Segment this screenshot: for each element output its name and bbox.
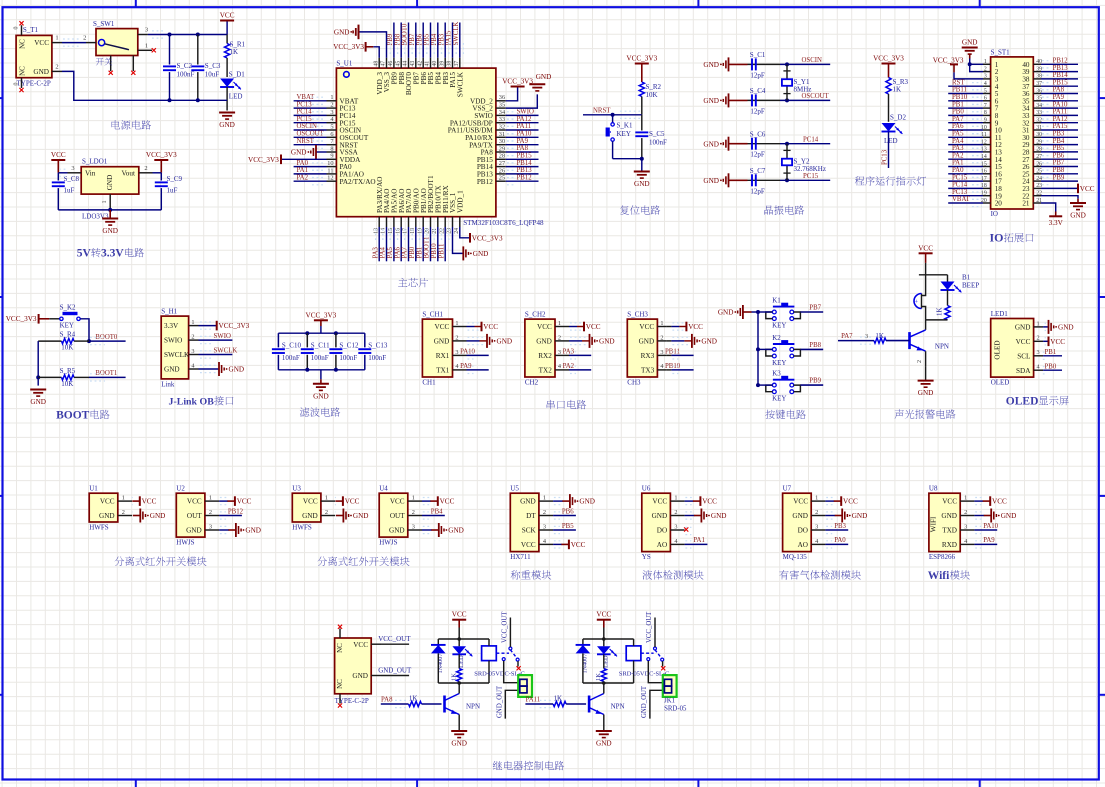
svg-text:SRD-05: SRD-05 — [664, 705, 687, 712]
svg-text:GND: GND — [596, 740, 612, 748]
wire filter bottom rail — [278, 369, 364, 371]
svg-text:44: 44 — [403, 61, 409, 67]
wire BOOT left trunk — [37, 341, 39, 386]
svg-text:S_R4: S_R4 — [60, 331, 76, 339]
svg-text:2: 2 — [660, 334, 663, 341]
svg-text:4: 4 — [984, 81, 987, 87]
resistor 1K relay — [595, 654, 606, 683]
svg-text:HWFS: HWFS — [292, 523, 312, 531]
no-ERC marker SW1 pin5 — [131, 71, 135, 75]
resistor 1K relay — [451, 654, 462, 683]
svg-text:100nF: 100nF — [311, 354, 329, 362]
svg-text:27: 27 — [499, 160, 505, 167]
svg-text:GND: GND — [703, 177, 719, 185]
svg-text:S_C10: S_C10 — [282, 342, 302, 350]
terminal connector relay — [518, 675, 532, 697]
capacitor S_C2 100nF — [163, 35, 195, 101]
svg-text:36: 36 — [499, 94, 505, 101]
svg-text:S_H1: S_H1 — [161, 308, 177, 316]
svg-text:VCC: VCC — [452, 611, 467, 619]
wire/net PA8 at U1 pin 29 — [506, 151, 539, 153]
wire/net PB5 at U5 pin3 — [553, 529, 576, 531]
svg-text:PA3: PA3 — [372, 246, 379, 258]
svg-text:PB12: PB12 — [517, 174, 533, 181]
svg-text:2: 2 — [144, 165, 147, 172]
svg-text:VCC: VCC — [51, 151, 66, 159]
svg-text:2: 2 — [917, 360, 923, 363]
svg-text:1uF: 1uF — [167, 187, 178, 195]
svg-text:8: 8 — [330, 145, 333, 152]
svg-text:DO: DO — [798, 527, 808, 535]
title relay control circuit — [493, 761, 502, 770]
svg-text:GND: GND — [291, 149, 307, 157]
svg-text:SWIO: SWIO — [164, 337, 182, 345]
crystal S_Y1 8MHz — [782, 62, 811, 102]
svg-text:VCC: VCC — [142, 498, 157, 506]
wire/net PA2 at ST1 pin 14 — [948, 158, 983, 160]
svg-text:PB7: PB7 — [1053, 160, 1065, 167]
svg-text:3: 3 — [815, 523, 818, 530]
wire/net PA5 at U1 pin 15 — [393, 227, 395, 261]
ground GND filter — [320, 370, 322, 380]
power port VCC_3V3 at ST1 pins 1/3 — [933, 57, 983, 79]
svg-text:PB14: PB14 — [1053, 72, 1069, 79]
svg-text:TX1: TX1 — [436, 367, 450, 375]
svg-text:PA3: PA3 — [563, 349, 575, 356]
svg-text:PB11: PB11 — [438, 244, 445, 259]
svg-text:LED: LED — [884, 137, 898, 145]
svg-text:S_C13: S_C13 — [368, 342, 388, 350]
LED S_D2 — [882, 114, 907, 146]
svg-text:PA7: PA7 — [841, 333, 853, 340]
svg-text:NRST: NRST — [297, 138, 315, 145]
svg-text:OUT: OUT — [187, 512, 202, 520]
wire/net VBAT at U1 pin 1 — [294, 100, 327, 102]
power port VCC at CH2 pin1 — [565, 326, 570, 328]
svg-text:S_LDO1: S_LDO1 — [82, 158, 108, 166]
svg-text:PA2/TX/AO: PA2/TX/AO — [340, 178, 376, 186]
svg-text:3: 3 — [412, 523, 415, 530]
svg-text:1: 1 — [325, 495, 328, 502]
title gas detect module — [779, 570, 788, 579]
mcu U1 STM32F103C8T6 body — [336, 60, 544, 227]
svg-text:VCC: VCC — [521, 541, 536, 549]
wire collector — [925, 320, 927, 330]
wire/net PB4 at U4 pin2 — [422, 515, 445, 517]
wire/net PA6 at U1 pin 16 — [400, 227, 402, 261]
capacitor S_C7 12pF / ground / net PC15 — [703, 167, 830, 195]
junction filter top C11 — [305, 331, 309, 335]
no-ERC marker T2 bottom — [338, 703, 342, 707]
svg-text:HWJS: HWJS — [379, 538, 397, 546]
junction keys trunk K2 — [756, 347, 760, 351]
connector T1 TYPE-C-2P — [14, 25, 63, 88]
wire/net PC14 at U1 pin 3 — [294, 114, 327, 116]
svg-text:S_C12: S_C12 — [339, 342, 359, 350]
svg-text:MQ-135: MQ-135 — [783, 553, 808, 561]
svg-text:RST: RST — [952, 79, 965, 86]
connector S_CH3 body — [627, 311, 667, 387]
wire/net PB6 at U1 pin 42 — [422, 23, 424, 58]
wire/net PA9 at U1 pin 30 — [506, 144, 539, 146]
svg-text:OLED: OLED — [994, 340, 1002, 359]
svg-text:1: 1 — [55, 35, 58, 42]
capacitor S_C13 100nF — [358, 333, 388, 370]
svg-text:6: 6 — [984, 96, 987, 102]
svg-text:VCC: VCC — [220, 12, 235, 20]
wire relay NO contact to connector — [504, 661, 519, 683]
svg-text:26: 26 — [499, 167, 505, 174]
svg-text:RX2: RX2 — [538, 352, 552, 360]
svg-text:1: 1 — [558, 320, 561, 327]
svg-text:OSCOUT: OSCOUT — [802, 93, 830, 100]
svg-text:GND: GND — [703, 140, 719, 148]
svg-text:BOOT1: BOOT1 — [95, 370, 117, 377]
pushbutton S_K1 KEY — [606, 115, 633, 159]
svg-text:3: 3 — [984, 74, 987, 80]
svg-text:48: 48 — [373, 61, 379, 67]
svg-text:8MHz: 8MHz — [794, 86, 812, 94]
wire/net PB5 at U1 pin 41 — [430, 23, 432, 58]
wire/net SWIO at U1 pin 34 — [506, 114, 539, 116]
svg-text:PB12: PB12 — [228, 508, 244, 515]
svg-text:S_C2: S_C2 — [177, 62, 193, 70]
display LED1 OLED body — [991, 310, 1043, 387]
module U2 body — [176, 485, 219, 547]
wire/net VCC_OUT relay contact — [509, 618, 511, 648]
svg-text:GND: GND — [599, 338, 615, 346]
svg-text:OLED: OLED — [991, 379, 1010, 387]
svg-text:PC14: PC14 — [297, 109, 313, 116]
svg-text:10uF: 10uF — [205, 71, 220, 79]
svg-text:100nF: 100nF — [339, 354, 357, 362]
power port VCC_3V3 at H1 pin1 — [199, 325, 217, 327]
svg-text:1: 1 — [145, 42, 148, 49]
svg-text:6: 6 — [330, 131, 333, 138]
svg-text:SWIO: SWIO — [517, 109, 534, 116]
wire/net PB8 at K2 — [800, 348, 823, 350]
svg-text:DO: DO — [657, 527, 667, 535]
svg-text:K3: K3 — [772, 370, 781, 378]
power port VCC at ST1 pin23 — [1041, 187, 1078, 189]
svg-text:VCC_3V3: VCC_3V3 — [626, 55, 657, 63]
ground GND alarm — [918, 380, 934, 382]
svg-text:12pF: 12pF — [750, 107, 765, 115]
ground GND at U1 pin2 — [133, 515, 141, 517]
svg-text:0: 0 — [14, 83, 20, 86]
junction keys trunk K3 — [756, 383, 760, 387]
svg-text:K1: K1 — [772, 296, 781, 304]
svg-text:1K: 1K — [595, 673, 602, 681]
wire/net PA1 at ST1 pin 15 — [948, 166, 983, 168]
svg-text:3: 3 — [543, 523, 546, 530]
svg-text:S_C1: S_C1 — [750, 51, 766, 59]
module U7 body — [783, 485, 826, 561]
svg-text:S_C9: S_C9 — [167, 175, 183, 183]
svg-text:VCC: VCC — [537, 323, 552, 331]
wire/net PB10 at ST1 pin 6 — [948, 100, 983, 102]
ground GND relay — [596, 730, 612, 732]
wire/net NRST reset — [583, 114, 642, 116]
svg-text:PB6: PB6 — [562, 508, 574, 515]
wire/net OSCOUT at U1 pin 6 — [294, 136, 327, 138]
svg-text:VCC: VCC — [440, 498, 455, 506]
svg-text:VCC: VCC — [303, 498, 318, 506]
power port VCC relay — [597, 619, 611, 621]
svg-text:PA7: PA7 — [402, 246, 409, 258]
capacitor S_C4 12pF / ground / net OSCOUT — [703, 87, 830, 115]
svg-text:PA2: PA2 — [563, 363, 575, 370]
svg-text:CH3: CH3 — [627, 378, 641, 386]
svg-text:VCC_3V3: VCC_3V3 — [146, 151, 177, 159]
svg-text:VCC_3V3: VCC_3V3 — [502, 78, 533, 86]
wire key to cap bottom — [613, 158, 642, 160]
svg-text:PB15: PB15 — [517, 153, 533, 160]
svg-text:VCC_3V3: VCC_3V3 — [219, 322, 250, 330]
svg-text:NPN: NPN — [935, 343, 949, 351]
svg-text:1K: 1K — [893, 86, 902, 94]
LED alarm — [941, 275, 962, 306]
wire/net PB15 at U1 pin 28 — [506, 158, 539, 160]
capacitor S_C6 12pF / ground / net PC14 — [703, 130, 830, 158]
wire/net PB1 at LED1 pin3 — [1043, 355, 1062, 357]
svg-text:1: 1 — [101, 200, 108, 203]
svg-text:PC15: PC15 — [297, 116, 313, 123]
svg-text:PA12: PA12 — [517, 116, 532, 123]
svg-text:42: 42 — [417, 61, 423, 67]
crystal S_Y2 32.768KHz — [782, 142, 826, 183]
svg-text:Vin: Vin — [85, 170, 96, 178]
title filter circuit — [300, 407, 309, 416]
svg-text:100nF: 100nF — [368, 354, 386, 362]
ground GND at U2 pin3 — [219, 529, 229, 531]
no-ERC marker SW1 pin1 — [152, 48, 156, 52]
ground GND power circuit — [219, 112, 235, 114]
title program run indicator — [855, 176, 865, 185]
svg-text:VCC: VCC — [942, 498, 957, 506]
svg-text:S_U1: S_U1 — [336, 60, 352, 68]
svg-text:GND: GND — [941, 512, 957, 520]
svg-text:U2: U2 — [176, 485, 185, 493]
svg-text:PA5: PA5 — [387, 246, 394, 258]
relay contact armature — [496, 652, 509, 654]
svg-text:GND: GND — [102, 227, 118, 235]
svg-text:GND: GND — [579, 498, 595, 506]
module U1 body — [89, 485, 132, 532]
svg-text:VCC: VCC — [586, 323, 601, 331]
svg-text:3: 3 — [191, 348, 194, 355]
wire/net PA12 at ST1 pin 32 — [1041, 122, 1078, 124]
module U3 body — [292, 485, 335, 532]
svg-text:1K: 1K — [554, 695, 563, 703]
wire/net PA2 at CH2 pin4 — [565, 369, 570, 371]
wire emitter to ground — [925, 351, 927, 367]
svg-text:VCC: VCC — [571, 541, 586, 549]
svg-text:PA10: PA10 — [1053, 101, 1068, 108]
svg-text:GND: GND — [1015, 324, 1031, 332]
svg-text:PA12: PA12 — [1053, 116, 1068, 123]
wire/net VBAT at ST1 pin 20 — [948, 202, 983, 204]
ground GND at U4 pin3 — [422, 529, 432, 531]
svg-text:1: 1 — [815, 495, 818, 502]
svg-text:9: 9 — [330, 153, 333, 160]
wire/net PA15 at ST1 pin 31 — [1041, 129, 1078, 131]
wire/net PB7 at K1 — [800, 311, 823, 313]
junction NRST/key — [611, 113, 615, 117]
svg-text:OSCIN: OSCIN — [802, 57, 822, 64]
capacitor S_C9 1uF — [155, 173, 183, 210]
svg-text:3: 3 — [674, 523, 677, 530]
junction C3 bottom — [196, 98, 200, 102]
svg-text:VDD_1: VDD_1 — [456, 190, 464, 213]
wire/net PA4 at U1 pin 14 — [386, 227, 388, 261]
wire/net SWCLK at H1 pin3 — [199, 354, 233, 356]
svg-text:VCC: VCC — [100, 498, 115, 506]
capacitor S_C12 100nF — [329, 333, 359, 370]
wire/net PA3 at U1 pin 13 — [378, 227, 380, 261]
svg-text:PB12: PB12 — [1053, 58, 1069, 65]
no-ERC marker relay NC contact — [517, 661, 519, 666]
capacitor S_C11 100nF — [301, 333, 330, 370]
title main chip — [398, 278, 407, 287]
power port VCC at CH3 pin1 — [667, 326, 672, 328]
svg-text:PA11: PA11 — [517, 123, 532, 130]
ground GND at U8 pin2 — [974, 515, 984, 517]
svg-text:S_SW1: S_SW1 — [93, 20, 115, 28]
svg-text:BEEP: BEEP — [962, 281, 979, 289]
wire/net PA1 at U1 pin 11 — [294, 173, 327, 175]
svg-text:10K: 10K — [646, 91, 658, 99]
ground GND relay — [451, 730, 467, 732]
svg-text:3.3V: 3.3V — [101, 248, 124, 260]
svg-text:GND: GND — [536, 338, 552, 346]
wire/net PB9 at K3 — [800, 384, 823, 386]
wire/net PA10 at U8 pin3 — [974, 529, 997, 531]
power port VCC_3V3 at U1 pin48 VDD_3 — [373, 47, 379, 58]
svg-text:1: 1 — [455, 320, 458, 327]
svg-text:BOOT0: BOOT0 — [95, 334, 118, 341]
wire/net PB9 at U1 pin 46 — [393, 23, 395, 58]
ground GND reset — [641, 159, 643, 172]
svg-text:GND_OUT: GND_OUT — [496, 685, 503, 718]
svg-text:VCC: VCC — [918, 244, 933, 252]
wire/net GND_OUT at T2 — [381, 675, 409, 677]
svg-text:GND: GND — [703, 97, 719, 105]
wire/net PC14 at ST1 pin 18 — [948, 187, 983, 189]
svg-text:GND: GND — [352, 672, 368, 680]
svg-text:12pF: 12pF — [750, 187, 765, 195]
svg-text:PB13: PB13 — [1053, 65, 1069, 72]
ground GND at CH3 pin2 — [667, 340, 672, 342]
svg-text:2: 2 — [964, 509, 967, 516]
svg-text:PB10: PB10 — [952, 94, 968, 101]
svg-text:PA1: PA1 — [693, 537, 704, 544]
pushbutton K3 KEY — [766, 370, 801, 403]
power port VCC at U5 pin4 — [553, 543, 562, 545]
svg-text:PB5: PB5 — [562, 523, 574, 530]
svg-text:38: 38 — [447, 61, 453, 67]
svg-text:VCC: VCC — [1016, 338, 1031, 346]
wire/net PB3 at U1 pin 39 — [444, 23, 446, 58]
svg-text:2: 2 — [209, 509, 212, 516]
wire relay emitter — [458, 715, 460, 732]
wire/net PB6 at ST1 pin 27 — [1041, 158, 1078, 160]
wire/net PA5 at ST1 pin 11 — [948, 136, 983, 138]
svg-text:1K: 1K — [409, 695, 418, 703]
svg-text:SWIO: SWIO — [214, 333, 231, 340]
svg-text:GND: GND — [711, 512, 727, 520]
wire/net PB8 at ST1 pin 25 — [1041, 173, 1078, 175]
svg-text:1K: 1K — [230, 48, 239, 56]
wire SW1 pin3 to VCC rail — [148, 34, 227, 36]
resistor S_R3 1K — [886, 78, 909, 122]
svg-text:SWCLK: SWCLK — [164, 351, 190, 359]
power port VCC at U4 pin1 — [422, 500, 431, 502]
junction filter top C12 — [334, 331, 338, 335]
svg-text:PB13: PB13 — [517, 167, 533, 174]
svg-text:GND: GND — [718, 309, 734, 317]
svg-text:VCC: VCC — [353, 641, 368, 649]
svg-text:J-Link OB: J-Link OB — [169, 397, 215, 408]
connector S_H1 J-Link body — [161, 308, 198, 389]
wire/net PA0 at ST1 pin 16 — [948, 173, 983, 175]
junction C2 top — [168, 33, 172, 37]
svg-text:S_D2: S_D2 — [890, 114, 906, 122]
svg-text:100nF: 100nF — [177, 71, 195, 79]
svg-text:10: 10 — [327, 160, 333, 167]
capacitor S_C1 12pF / ground / net OSCIN — [703, 51, 830, 79]
svg-text:35: 35 — [499, 102, 505, 109]
ground GND at U1 pin35 VSS_2 — [506, 94, 538, 108]
wire/net PB13 at ST1 pin 39 — [1041, 71, 1078, 73]
wire/net PA7 at U1 pin 17 — [408, 227, 410, 261]
terminal connector relay — [663, 675, 677, 697]
svg-text:TX2: TX2 — [539, 367, 553, 375]
svg-text:S_C8: S_C8 — [64, 175, 80, 183]
svg-text:47: 47 — [381, 61, 387, 67]
svg-text:GND: GND — [229, 366, 245, 374]
svg-text:10K: 10K — [61, 344, 73, 352]
svg-text:GND: GND — [334, 29, 350, 37]
svg-text:1: 1 — [543, 495, 546, 502]
svg-text:3: 3 — [660, 349, 663, 356]
wire/net PA9 at ST1 pin 35 — [1041, 100, 1078, 102]
resistor S_R5 10K — [38, 367, 89, 388]
resistor S_R2 10K — [639, 82, 661, 115]
wire/net RST at ST1 pin 4 — [948, 85, 983, 87]
svg-text:1: 1 — [674, 495, 677, 502]
svg-text:SCL: SCL — [1017, 352, 1030, 360]
ground GND at CH1 pin2 — [462, 340, 467, 342]
power port VCC_3V3 at U1 pin24 VDD_1 — [460, 227, 470, 238]
svg-text:5V: 5V — [77, 248, 92, 260]
svg-text:PA8: PA8 — [381, 696, 393, 703]
junction C3 top — [196, 33, 200, 37]
wire trunk to K3 — [758, 384, 773, 386]
svg-text:BOOT: BOOT — [56, 409, 90, 421]
svg-text:GND: GND — [150, 512, 166, 520]
svg-text:1: 1 — [964, 495, 967, 502]
svg-text:JK1: JK1 — [664, 698, 675, 705]
svg-text:AO: AO — [798, 541, 808, 549]
svg-text:VCC_3V3: VCC_3V3 — [6, 315, 37, 323]
svg-text:29: 29 — [499, 145, 505, 152]
resistor 1K alarm base — [874, 338, 886, 343]
svg-text:PA10: PA10 — [983, 523, 998, 530]
svg-text:VBAT: VBAT — [952, 196, 971, 203]
svg-text:PB8: PB8 — [1053, 167, 1065, 174]
svg-text:PC14: PC14 — [803, 137, 819, 144]
